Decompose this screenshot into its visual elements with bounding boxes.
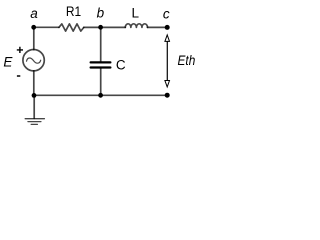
svg-text:a: a xyxy=(30,6,38,21)
svg-text:C: C xyxy=(116,58,126,73)
svg-text:E: E xyxy=(3,55,13,70)
svg-text:c: c xyxy=(163,6,170,21)
svg-text:b: b xyxy=(97,6,105,21)
svg-text:Eth: Eth xyxy=(178,53,196,68)
svg-text:R1: R1 xyxy=(66,4,81,19)
svg-text:L: L xyxy=(132,5,140,20)
